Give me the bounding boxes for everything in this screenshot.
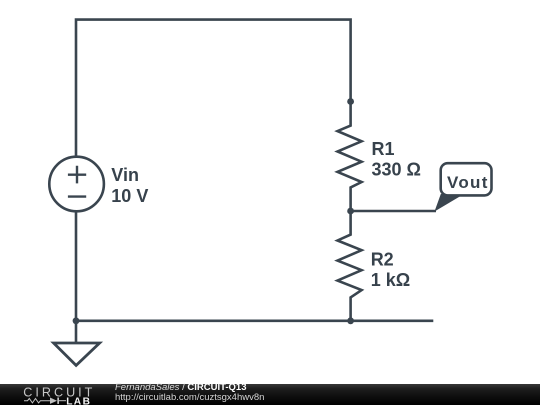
svg-text:1 kΩ: 1 kΩ <box>371 270 410 290</box>
svg-text:Vout: Vout <box>447 173 489 192</box>
svg-text:R1: R1 <box>372 139 395 159</box>
svg-text:10 V: 10 V <box>111 186 148 206</box>
svg-text:330 Ω: 330 Ω <box>372 159 421 179</box>
svg-text:LAB: LAB <box>66 396 91 405</box>
svg-text:Vin: Vin <box>111 165 139 185</box>
svg-text:R2: R2 <box>371 250 394 270</box>
